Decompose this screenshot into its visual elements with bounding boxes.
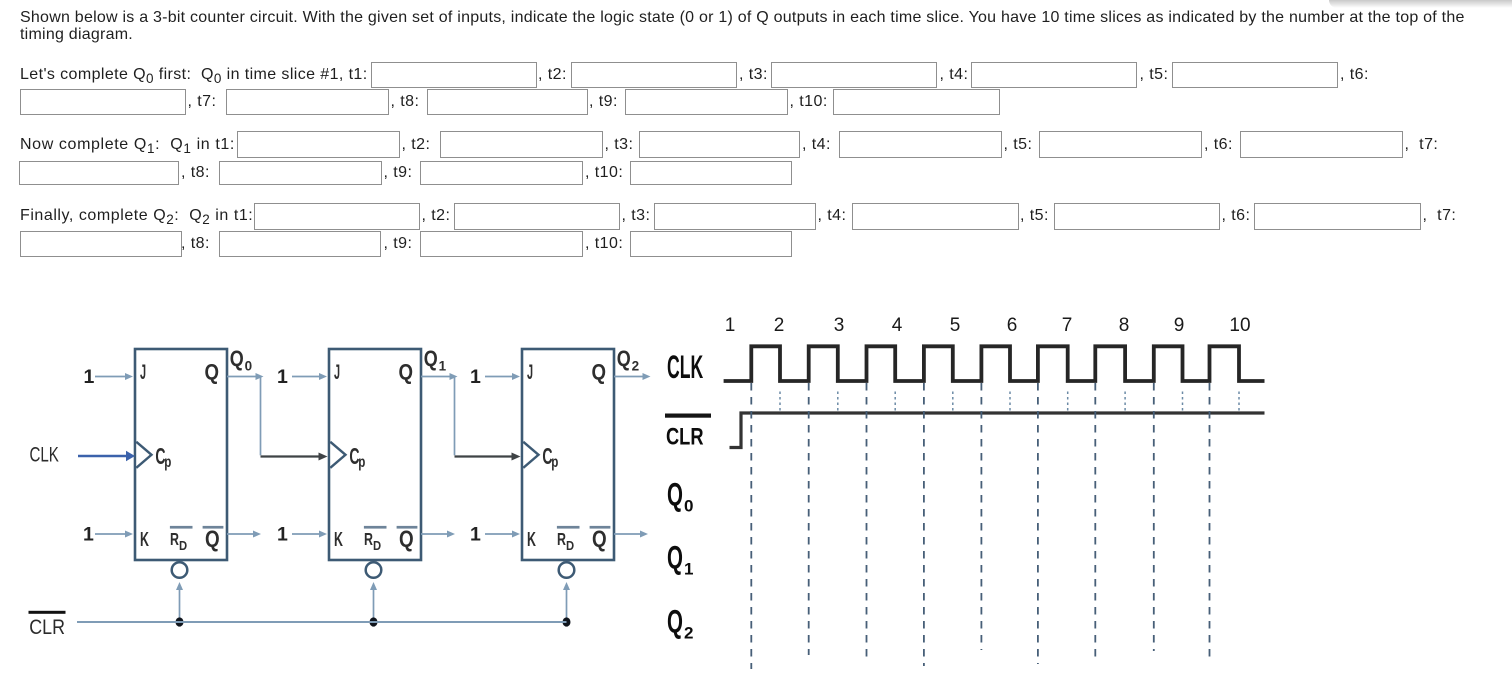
svg-text:Q: Q	[617, 347, 631, 371]
svg-text:6: 6	[1007, 315, 1018, 336]
svg-text:4: 4	[892, 315, 903, 336]
svg-text:Q: Q	[592, 527, 607, 552]
svg-text:Q: Q	[667, 540, 683, 576]
svg-text:1: 1	[470, 524, 481, 546]
svg-text:3: 3	[834, 315, 845, 336]
svg-text:8: 8	[1119, 315, 1130, 336]
svg-text:CLK: CLK	[30, 442, 59, 466]
svg-text:R: R	[170, 530, 179, 550]
svg-text:1: 1	[84, 366, 95, 388]
svg-text:D: D	[179, 538, 188, 553]
svg-text:1: 1	[277, 366, 288, 388]
svg-text:Q: Q	[424, 347, 438, 371]
svg-text:5: 5	[950, 315, 961, 336]
svg-text:1: 1	[83, 524, 94, 546]
svg-text:J: J	[527, 360, 533, 384]
svg-text:1: 1	[684, 560, 693, 579]
svg-text:2: 2	[632, 359, 640, 374]
svg-text:p: p	[551, 453, 558, 470]
svg-text:R: R	[364, 530, 373, 550]
svg-text:1: 1	[470, 366, 481, 388]
svg-text:K: K	[527, 528, 536, 551]
svg-text:J: J	[334, 360, 340, 384]
svg-text:K: K	[334, 528, 343, 551]
svg-text:10: 10	[1229, 315, 1250, 336]
svg-text:Q: Q	[667, 477, 683, 513]
svg-text:K: K	[140, 528, 149, 551]
svg-text:p: p	[164, 453, 171, 470]
svg-text:0: 0	[245, 359, 253, 374]
svg-text:0: 0	[684, 497, 693, 516]
svg-text:CLR: CLR	[666, 422, 704, 450]
svg-text:9: 9	[1174, 315, 1185, 336]
svg-text:1: 1	[725, 315, 736, 336]
svg-text:Q: Q	[399, 527, 414, 552]
svg-text:p: p	[358, 453, 365, 470]
svg-text:1: 1	[277, 524, 288, 546]
svg-text:D: D	[566, 538, 575, 553]
svg-text:1: 1	[439, 359, 447, 374]
svg-text:2: 2	[684, 624, 693, 643]
svg-text:Q: Q	[205, 527, 220, 552]
svg-text:R: R	[557, 530, 566, 550]
svg-text:7: 7	[1062, 315, 1073, 336]
svg-text:Q: Q	[399, 360, 414, 385]
svg-text:Q: Q	[667, 604, 683, 640]
svg-text:CLK: CLK	[667, 351, 703, 386]
svg-text:2: 2	[774, 315, 785, 336]
svg-text:CLR: CLR	[29, 615, 65, 639]
svg-text:Q: Q	[230, 347, 244, 371]
svg-text:Q: Q	[592, 360, 607, 385]
svg-text:Q: Q	[205, 360, 220, 385]
svg-text:D: D	[373, 538, 382, 553]
svg-text:J: J	[140, 360, 146, 384]
